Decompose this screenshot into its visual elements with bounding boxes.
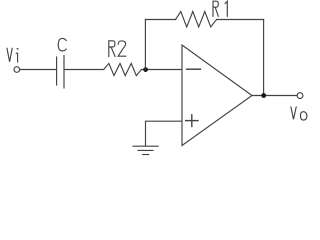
wire input circle to capacitor (20, 69, 56, 71)
input terminal Vi (open circle) (14, 67, 20, 73)
label C (58, 38, 66, 50)
label Vo (291, 107, 307, 120)
wire top left segment (145, 19, 175, 21)
wire feedback down to output node (263, 20, 265, 96)
label R2 (109, 41, 126, 57)
wire junction up to feedback (144, 20, 146, 70)
node B junction dot (output / feedback) (261, 93, 266, 98)
resistor R2 (zigzag) (104, 63, 142, 75)
op-amp minus sign (187, 68, 201, 70)
wire capacitor to R2 (65, 69, 104, 71)
node A junction dot (R2 / feedback) (143, 67, 148, 72)
op-amp U1 triangle (182, 45, 252, 146)
resistor R1 (zigzag) (176, 12, 217, 27)
wire top right segment (217, 19, 264, 21)
label R1 (213, 1, 227, 16)
label Vi (7, 48, 18, 62)
wire R2 to op-amp inverting input (141, 69, 181, 71)
output terminal Vo (open circle) (297, 93, 303, 99)
wire op-amp plus input to ground (146, 121, 182, 146)
ground (133, 146, 158, 154)
capacitor C (57, 56, 64, 89)
op-amp plus sign (186, 115, 198, 127)
wire op-amp output to terminal (252, 95, 297, 97)
